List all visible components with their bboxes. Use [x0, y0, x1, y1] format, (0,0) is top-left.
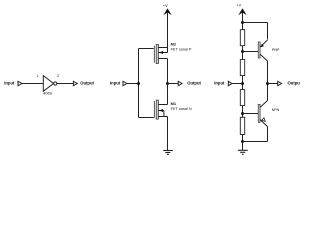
svg-text:1: 1 [37, 74, 39, 78]
base bar [258, 104, 260, 122]
inverter gate 4069 [43, 76, 53, 92]
svg-text:Output: Output [288, 80, 301, 85]
ground (right circuit) [238, 150, 248, 154]
port output middle [178, 81, 182, 85]
svg-text:Output: Output [187, 80, 201, 85]
node junction input right [241, 82, 244, 85]
gate wire [139, 48, 154, 50]
wire emitter return [243, 141, 268, 143]
emitter [260, 40, 267, 47]
bubble [54, 82, 57, 85]
svg-text:NPN: NPN [272, 108, 280, 112]
bulk stub [159, 52, 168, 54]
transistor NPN [258, 84, 267, 142]
wire [232, 83, 243, 85]
base bar [258, 42, 260, 58]
svg-text:Input: Input [110, 80, 121, 85]
svg-text:M2: M2 [171, 42, 177, 47]
channel [156, 100, 158, 119]
svg-text:Input: Input [4, 80, 15, 85]
collector [260, 101, 267, 108]
source stub [159, 116, 168, 118]
wire base [243, 113, 259, 115]
emitter [260, 120, 267, 127]
transistor PNP [258, 40, 267, 84]
wire [57, 83, 73, 85]
wire [22, 83, 43, 85]
wire [242, 106, 244, 118]
wire [268, 83, 278, 85]
wire [242, 46, 244, 60]
wire [168, 83, 179, 85]
wire [127, 83, 139, 85]
gate plate [153, 101, 156, 118]
source stub [159, 47, 168, 49]
collector [260, 54, 267, 61]
channel [156, 45, 158, 64]
svg-text:FET canal N: FET canal N [171, 107, 192, 111]
resistor R2 [240, 60, 244, 76]
wire gate rail [138, 49, 140, 118]
bulk arrow [159, 109, 163, 112]
port input right [228, 81, 232, 85]
node junction output middle [166, 82, 169, 85]
transistor M2 [139, 45, 168, 84]
svg-text:Input: Input [214, 80, 225, 85]
node junction emitter return [241, 140, 244, 143]
wire to emitter rail [243, 22, 268, 24]
gate wire [139, 117, 154, 119]
svg-text:Output: Output [80, 80, 94, 85]
svg-text:+V: +V [163, 4, 168, 8]
wire [242, 76, 244, 90]
svg-text:M1: M1 [171, 101, 177, 106]
resistor R1 [240, 30, 244, 46]
resistor R3 [240, 90, 244, 106]
svg-text:4069: 4069 [43, 91, 53, 96]
port input left [18, 81, 22, 85]
node junction base PNP [241, 50, 244, 53]
svg-text:2: 2 [57, 74, 59, 78]
port input middle [123, 81, 127, 85]
port output right [278, 81, 282, 85]
svg-text:PNP: PNP [272, 48, 280, 52]
bulk arrow [159, 51, 163, 54]
drain stub [159, 104, 168, 106]
gate plate [153, 46, 156, 63]
node junction top [241, 21, 244, 24]
port output left [73, 81, 77, 85]
wire base [243, 51, 259, 53]
bulk stub [159, 110, 164, 112]
transistor M1 [139, 84, 168, 151]
wire [242, 135, 244, 151]
svg-text:FET canal P: FET canal P [171, 48, 192, 52]
node junction base NPN [241, 112, 244, 115]
svg-text:+V: +V [236, 3, 241, 7]
resistor R4 [240, 117, 244, 134]
drain stub [159, 58, 168, 60]
node junction gate [137, 82, 140, 85]
node junction output right [266, 82, 269, 85]
ground (middle circuit) [163, 151, 173, 155]
